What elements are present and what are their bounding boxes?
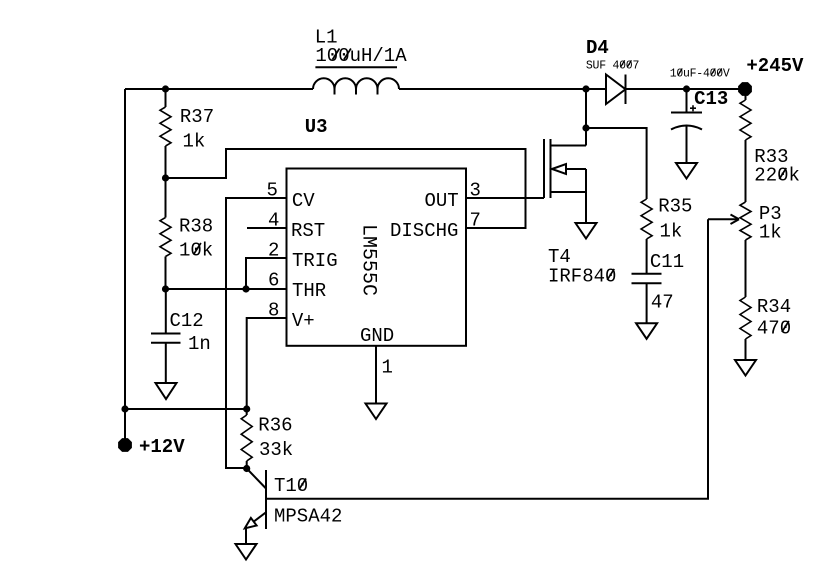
- svg-text:R37: R37: [180, 106, 214, 128]
- svg-text:IRF840: IRF840: [548, 265, 616, 287]
- node drain junction: [582, 85, 589, 92]
- capacitor C13: [670, 67, 730, 163]
- resistor R34: [740, 240, 791, 360]
- wire GND pin 1: [375, 346, 377, 404]
- svg-text:1k: 1k: [660, 220, 683, 242]
- svg-text:5: 5: [267, 180, 278, 202]
- resistor R37: [160, 89, 214, 178]
- node C13 junction: [683, 85, 690, 92]
- wire CV net to T10 collector: [226, 198, 287, 468]
- wire DISCHG feedback route: [166, 149, 526, 228]
- svg-text:MPSA42: MPSA42: [274, 506, 342, 528]
- svg-text:R38: R38: [179, 216, 213, 238]
- svg-text:1n: 1n: [188, 333, 211, 355]
- wire V+ pin 8 to +12V rail: [247, 318, 287, 409]
- svg-text:GND: GND: [360, 325, 394, 347]
- svg-text:+245V: +245V: [746, 55, 804, 77]
- svg-text:RST: RST: [291, 220, 325, 242]
- transistor T10: [245, 469, 343, 545]
- ground under C13: [676, 163, 697, 179]
- ground under C11: [636, 323, 657, 339]
- inductor L1: [313, 27, 407, 95]
- resistor R33: [740, 93, 800, 202]
- node THR junction: [162, 285, 169, 292]
- resistor R36: [241, 409, 293, 469]
- wire TRIG pin 2: [246, 258, 287, 289]
- svg-text:C11: C11: [650, 251, 684, 273]
- svg-text:DISCHG: DISCHG: [390, 220, 458, 242]
- svg-text:U3: U3: [305, 116, 328, 138]
- ground under T10: [236, 544, 257, 560]
- node V+/R36 rail junction: [243, 405, 250, 412]
- svg-text:OUT: OUT: [425, 190, 459, 212]
- terminal +245V: [738, 55, 804, 96]
- svg-text:220k: 220k: [754, 165, 800, 187]
- svg-text:4: 4: [268, 210, 279, 232]
- svg-text:C13: C13: [694, 88, 728, 110]
- wire top rail left segment: [125, 88, 313, 90]
- ground under C12: [156, 383, 177, 399]
- wire THR pin 6: [166, 288, 287, 290]
- ground under T4 source: [576, 223, 597, 239]
- wire RST pin 4 stub: [247, 227, 287, 229]
- svg-text:CV: CV: [292, 190, 315, 212]
- svg-text:R36: R36: [258, 415, 292, 437]
- node R37/R38 junction: [162, 174, 169, 181]
- svg-text:T10: T10: [274, 475, 308, 497]
- svg-text:D4: D4: [586, 37, 609, 59]
- diode D4: [586, 37, 639, 104]
- resistor R35: [641, 196, 692, 274]
- svg-text:1k: 1k: [183, 131, 206, 153]
- svg-text:C12: C12: [170, 310, 204, 332]
- svg-text:33k: 33k: [259, 439, 293, 461]
- svg-text:TRIG: TRIG: [292, 250, 338, 272]
- svg-text:8: 8: [268, 300, 279, 322]
- transistor T4 MOSFET: [544, 89, 616, 287]
- wire P3 wiper feedback to T10 base: [266, 219, 708, 499]
- wire top rail mid segment: [399, 88, 606, 90]
- terminal +12V: [118, 436, 185, 458]
- capacitor C11: [632, 251, 685, 323]
- svg-text:V+: V+: [292, 310, 315, 332]
- node drain/R35 junction: [582, 124, 589, 131]
- node R36/T10 collector junction: [243, 465, 250, 472]
- wire drain to R35: [586, 128, 647, 199]
- svg-text:LM555C: LM555C: [357, 224, 380, 296]
- svg-text:THR: THR: [292, 280, 326, 302]
- svg-text:1k: 1k: [759, 222, 782, 244]
- svg-text:47: 47: [651, 292, 674, 314]
- svg-text:100uH/1A: 100uH/1A: [315, 45, 407, 67]
- wire top rail right segment: [626, 88, 746, 90]
- op-amp U3 LM555C box: [287, 116, 467, 347]
- wire +12V rail horizontal: [125, 408, 247, 410]
- capacitor C12: [151, 289, 211, 383]
- svg-text:R34: R34: [757, 296, 791, 318]
- node rail corner junction: [121, 405, 128, 412]
- svg-text:6: 6: [268, 270, 279, 292]
- wire left +12V rail vertical: [124, 89, 126, 445]
- svg-text:2: 2: [268, 240, 279, 262]
- svg-text:R35: R35: [658, 196, 692, 218]
- svg-text:7: 7: [470, 210, 481, 232]
- resistor R38: [160, 178, 213, 289]
- ground under U3: [366, 404, 387, 420]
- svg-text:+12V: +12V: [139, 436, 185, 458]
- node TRIG/THR junction: [242, 285, 249, 292]
- potentiometer P3: [708, 202, 782, 244]
- svg-text:1: 1: [382, 357, 393, 379]
- wire OUT pin 3 to gate: [466, 197, 544, 199]
- svg-text:470: 470: [757, 318, 791, 340]
- node R37 top junction: [162, 85, 169, 92]
- ground under R34: [735, 360, 756, 376]
